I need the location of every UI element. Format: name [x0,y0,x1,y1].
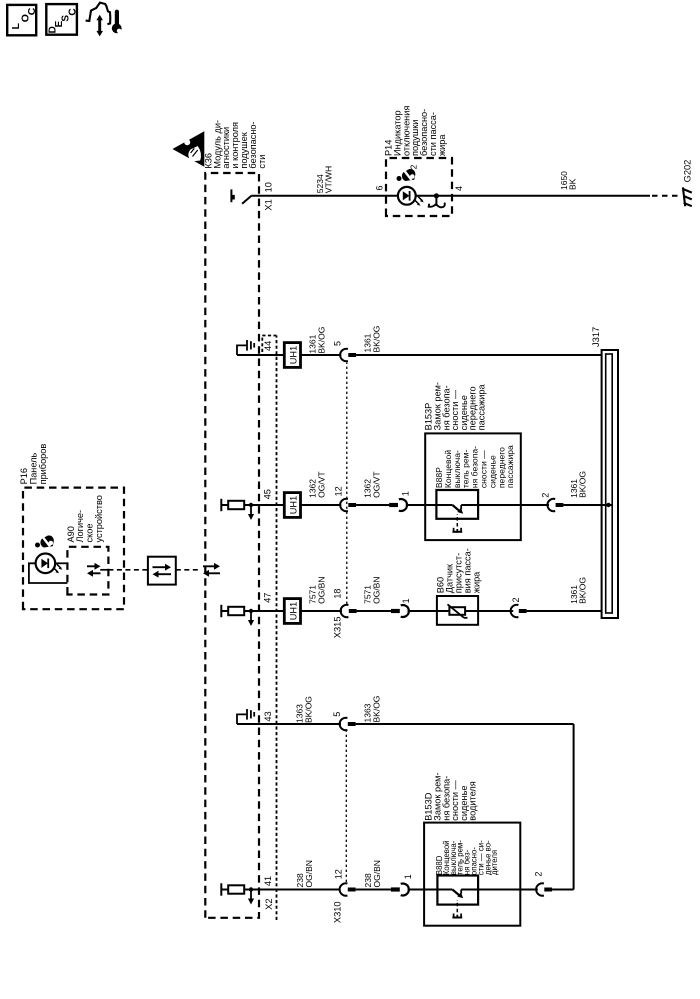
svg-text:5: 5 [332,712,342,717]
svg-text:пассажира: пассажира [505,445,515,488]
svg-text:UH1: UH1 [289,602,299,620]
svg-text:2: 2 [534,872,544,877]
svg-text:жира: жира [472,571,482,593]
svg-text:BK/OG: BK/OG [303,696,313,723]
svg-text:дителя: дителя [490,850,499,875]
svg-text:OG/BN: OG/BN [304,860,314,887]
svg-text:жира: жира [437,134,447,156]
svg-text:L: L [10,23,22,30]
svg-text:45: 45 [263,489,273,499]
svg-text:BK/OG: BK/OG [371,696,381,723]
svg-text:6: 6 [375,185,385,190]
svg-text:18: 18 [333,589,343,599]
svg-text:BK/OG: BK/OG [578,577,588,604]
svg-text:OG/VT: OG/VT [317,471,327,497]
svg-text:сти: сти [257,155,267,169]
svg-text:1: 1 [401,598,411,603]
svg-text:X315: X315 [333,616,343,638]
svg-text:J317: J317 [591,327,601,347]
svg-text:41: 41 [263,876,273,886]
svg-text:X1: X1 [264,199,274,210]
svg-text:BK/OG: BK/OG [371,326,381,353]
svg-text:пассажира: пассажира [477,384,487,431]
svg-text:1: 1 [401,491,411,496]
svg-text:устройство: устройство [94,495,104,542]
svg-text:2: 2 [541,493,551,498]
svg-text:5: 5 [333,341,343,346]
svg-text:2: 2 [409,164,419,169]
svg-text:12: 12 [334,869,344,879]
svg-text:P16: P16 [19,468,29,484]
svg-text:OG/BN: OG/BN [372,860,382,887]
svg-text:G202: G202 [683,160,693,183]
svg-text:OG/BN: OG/BN [371,576,381,603]
svg-text:UH1: UH1 [289,496,299,514]
svg-text:C: C [26,7,38,15]
svg-text:OG/BN: OG/BN [317,576,327,603]
svg-text:1: 1 [403,874,413,879]
svg-text:X310: X310 [333,901,343,923]
svg-text:BK/OG: BK/OG [317,327,327,354]
svg-text:10: 10 [264,182,274,192]
svg-text:VT/WH: VT/WH [324,166,334,193]
svg-text:OG/VT: OG/VT [371,471,381,497]
svg-text:C: C [68,8,79,15]
svg-text:Панель: Панель [29,452,39,484]
svg-text:12: 12 [334,486,344,496]
svg-text:BK/OG: BK/OG [578,471,588,498]
svg-text:водителя: водителя [468,781,478,820]
svg-text:X2: X2 [264,898,274,909]
svg-text:BK: BK [568,178,578,190]
svg-text:47: 47 [263,593,273,603]
svg-text:приборов: приборов [38,444,48,485]
svg-text:UH1: UH1 [289,346,299,364]
svg-text:43: 43 [263,711,273,721]
svg-text:2: 2 [511,597,521,602]
svg-text:4: 4 [454,186,464,191]
svg-text:44: 44 [263,341,273,351]
